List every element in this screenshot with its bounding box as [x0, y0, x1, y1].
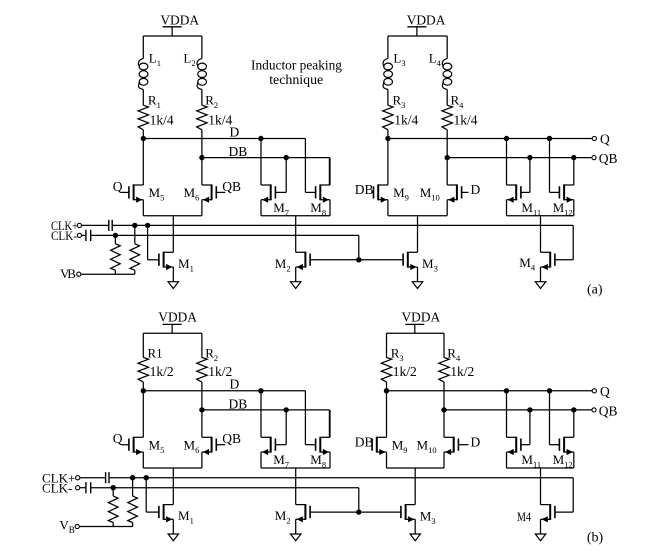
svg-text:Q: Q	[113, 179, 123, 194]
inductor L4	[429, 50, 452, 89]
svg-text:Inductor peaking: Inductor peaking	[251, 59, 342, 74]
junction dot D at M7 drain	[258, 388, 263, 393]
transistor M3 (circuit b)	[401, 504, 436, 526]
svg-text:DB: DB	[355, 434, 374, 449]
junction dot QB at M10 drain	[445, 155, 450, 160]
svg-text:DB: DB	[229, 144, 248, 159]
wire R2 bottom	[201, 130, 203, 158]
capacitor CLK- coupling (circuit a)	[86, 230, 91, 241]
bias terminal VB (circuit a)	[60, 266, 81, 281]
junction dot QB at M11 gate	[527, 155, 532, 160]
inductor L1	[138, 50, 161, 89]
wire drop to R2 (circuit b)	[201, 333, 203, 357]
junction dot D at M5 drain	[141, 388, 146, 393]
wire R2 bottom	[201, 382, 203, 410]
terminal QB	[592, 403, 618, 418]
wire M12 drain (circuit a)	[573, 158, 575, 185]
resistor R1	[138, 345, 163, 382]
wire VDDA rail (circuit a left)	[143, 35, 202, 37]
node DB label at M9 gate	[355, 182, 374, 197]
svg-text:1k/2: 1k/2	[150, 364, 174, 379]
terminal QB	[592, 151, 618, 166]
wire M11 drain (circuit b)	[506, 391, 508, 438]
node QB label at M6 gate	[216, 179, 241, 194]
transistor M6	[184, 184, 217, 202]
transistor M1 (circuit a)	[159, 252, 194, 274]
caption (b)	[587, 530, 604, 545]
wire M12 drain (circuit b)	[573, 410, 575, 437]
resistor R2	[197, 345, 218, 382]
junction dot CLK+ M1 gate	[145, 223, 150, 228]
terminal Q	[592, 384, 610, 399]
value label 1k/4 (R3)	[394, 113, 418, 128]
wire L1 to R1	[142, 90, 144, 106]
wire M7 gate riser	[275, 410, 286, 445]
ground M2	[291, 267, 301, 289]
junction dot DB at M7 gate	[284, 155, 289, 160]
input terminal CLK+ (circuit b)	[42, 470, 80, 485]
transistor M7	[261, 184, 289, 217]
input terminal CLK+ (circuit a)	[51, 218, 82, 233]
svg-text:QB: QB	[599, 151, 618, 166]
wire M9 drain (circuit a)	[387, 139, 389, 186]
svg-text:QB: QB	[599, 403, 618, 418]
svg-text:B: B	[67, 266, 76, 281]
svg-text:D: D	[230, 377, 240, 392]
svg-text:DB: DB	[229, 397, 248, 412]
svg-text:D: D	[471, 434, 481, 449]
transistor M9	[374, 184, 409, 202]
junction dot Q at M9 drain	[384, 388, 389, 393]
wire R4 bottom	[443, 382, 445, 410]
wire M8 drain (circuit a)	[329, 158, 331, 185]
junction dot CLK- bias resistor	[113, 233, 118, 238]
junction dot D at M7 drain	[258, 136, 263, 141]
ground M3	[410, 519, 420, 541]
transistor M4 (circuit a)	[519, 252, 555, 273]
wire CLK+ to coupling cap	[82, 224, 109, 226]
wire CLK- rail (circuit a)	[91, 235, 358, 259]
node D rail (circuit a)	[143, 124, 305, 192]
wire M11/M12 source bus	[507, 452, 574, 505]
node DB label at M9 gate	[355, 434, 374, 449]
svg-text:1k/2: 1k/2	[393, 364, 417, 379]
power VDDA (circuit a left half)	[160, 12, 199, 36]
transistor M5	[129, 437, 164, 455]
wire VB rail	[81, 273, 135, 275]
wire M2-M3 gate line (circuit a)	[310, 259, 403, 261]
node D label at M10 gate	[462, 182, 481, 197]
junction dot Q at M11 drain	[504, 136, 509, 141]
transistor M4 (circuit b)	[517, 504, 555, 524]
transistor M8	[310, 437, 330, 470]
junction dot Q at M9 drain	[385, 136, 390, 141]
wire M8 gate lead	[305, 191, 315, 193]
ground M2	[291, 519, 301, 541]
wire VDDA rail (circuit b right)	[387, 332, 445, 334]
node D rail (circuit b)	[143, 377, 305, 445]
transistor M8	[310, 184, 330, 217]
wire M7/M8 source bus	[261, 200, 330, 253]
transistor M2 (circuit a)	[275, 252, 310, 274]
value label 1k/2 (R4)	[450, 364, 474, 379]
value label 1k/4 (R1)	[150, 113, 174, 128]
node DB rail (circuit a)	[202, 144, 330, 185]
wire M1 gate riser	[148, 225, 159, 259]
resistor bias RB1 (circuit a)	[111, 235, 121, 274]
wire CLK- to coupling cap	[80, 487, 85, 489]
wire M2-M3 gate line (circuit b)	[310, 511, 401, 513]
resistor R4	[442, 92, 464, 129]
resistor bias RB1 (circuit b)	[108, 488, 118, 527]
inductor L2	[183, 50, 206, 89]
wire M12 gate riser	[550, 139, 560, 193]
wire M5 drain (circuit b)	[142, 391, 144, 438]
junction dot DB at M7 gate	[284, 407, 289, 412]
transistor M10	[420, 184, 462, 202]
junction dot CLK- to gate line	[356, 509, 361, 514]
terminal Q	[592, 132, 610, 147]
wire drop to R3 (circuit b)	[386, 333, 388, 357]
caption (a)	[587, 282, 603, 297]
wire R3 bottom	[387, 130, 389, 139]
wire VDDA rail (circuit b left)	[143, 332, 202, 334]
wire R1 bottom	[142, 130, 144, 139]
svg-text:1k/4: 1k/4	[394, 113, 418, 128]
wire drop to L4 (circuit a)	[446, 36, 448, 59]
resistor R4	[439, 345, 461, 382]
junction dot QB at M12 drain	[571, 155, 576, 160]
wire R3 bottom	[386, 382, 388, 391]
junction dot QB at M10 drain	[441, 407, 446, 412]
junction dot Q at M12 gate	[547, 388, 552, 393]
wire M7 drain (circuit a)	[260, 139, 262, 186]
wire M7/M8 source bus	[261, 452, 330, 505]
junction dot QB at M12 drain	[571, 407, 576, 412]
svg-text:(b): (b)	[587, 530, 604, 545]
transistor M2 (circuit b)	[275, 504, 310, 526]
svg-text:QB: QB	[222, 179, 241, 194]
node QB rail (circuit b)	[444, 409, 592, 411]
transistor M5	[129, 184, 164, 202]
junction dot CLK- bias resistor	[111, 485, 116, 490]
svg-text:Q: Q	[113, 431, 123, 446]
svg-text:QB: QB	[222, 431, 241, 446]
annotation text: Inductor peaking technique	[251, 59, 342, 88]
svg-text:VDDA: VDDA	[402, 309, 441, 324]
wire L4 to R4	[446, 90, 448, 106]
svg-text:1k/4: 1k/4	[454, 113, 478, 128]
junction dot CLK+ bias resistor	[132, 223, 137, 228]
wire M9 drain (circuit b)	[386, 391, 388, 438]
power VDDA (circuit b right half)	[402, 309, 441, 333]
value label 1k/4 (R4)	[454, 113, 478, 128]
capacitor CLK+ coupling (circuit b)	[106, 472, 109, 483]
wire drop to L3 (circuit a)	[387, 36, 389, 59]
capacitor CLK- coupling (circuit b)	[86, 482, 91, 493]
resistor R3	[383, 92, 406, 129]
wire M10 drain (circuit a)	[446, 158, 448, 185]
wire M8 gate lead	[305, 444, 315, 446]
wire M10 drain (circuit b)	[443, 410, 445, 437]
wire M6 drain (circuit a)	[201, 158, 203, 185]
transistor M3 (circuit a)	[403, 252, 438, 274]
wire CLK+ to coupling cap	[80, 477, 105, 479]
junction dot DB at M6 drain	[199, 407, 204, 412]
svg-text:1k/4: 1k/4	[150, 113, 174, 128]
svg-text:1k/2: 1k/2	[450, 364, 474, 379]
resistor R1	[138, 92, 161, 129]
transistor M6	[184, 437, 217, 455]
node DB rail (circuit b)	[202, 397, 330, 438]
value label 1k/4 (R2)	[208, 113, 232, 128]
wire L2 to R2	[201, 90, 203, 106]
junction dot CLK+ M1 gate	[144, 475, 149, 480]
svg-text:VDDA: VDDA	[160, 12, 199, 27]
wire M5/M6 source bus	[143, 452, 202, 505]
resistor R2	[197, 92, 218, 129]
transistor M12	[553, 184, 574, 217]
svg-text:D: D	[230, 124, 240, 139]
wire drop to L1 (circuit a)	[142, 36, 144, 59]
wire CLK- to coupling cap	[82, 234, 86, 236]
wire M9/M10 source bus	[388, 200, 447, 253]
value label 1k/2 (R1)	[150, 364, 174, 379]
transistor M12	[553, 437, 574, 470]
wire VDDA rail (circuit a right)	[388, 35, 447, 37]
value label 1k/2 (R2)	[208, 364, 232, 379]
ground M4	[535, 519, 546, 541]
junction dot CLK- to gate line	[356, 257, 361, 262]
svg-text:technique: technique	[269, 73, 323, 88]
wire CLK+ rail (circuit b)	[110, 478, 574, 512]
transistor M11	[507, 437, 542, 470]
resistor bias RB2 (circuit a)	[130, 225, 140, 274]
wire M11/M12 source bus	[507, 200, 574, 253]
wire M12 gate riser	[550, 391, 560, 445]
wire VB rail	[79, 526, 132, 528]
transistor M10	[417, 437, 459, 455]
input terminal CLK- (circuit a)	[51, 228, 82, 243]
junction dot Q at M12 gate	[547, 136, 552, 141]
wire M9/M10 source bus	[387, 452, 445, 505]
inductor L3	[383, 50, 406, 89]
node QB label at M6 gate	[216, 431, 241, 446]
power VDDA (circuit b left half)	[158, 309, 197, 333]
wire M4 gate lead	[555, 511, 573, 513]
svg-text:R1: R1	[148, 345, 163, 360]
wire drop to R4 (circuit b)	[443, 333, 445, 357]
wire M11 drain (circuit a)	[506, 139, 508, 186]
svg-text:VDDA: VDDA	[158, 309, 197, 324]
resistor R3	[381, 345, 403, 382]
node Q label at M5 gate	[113, 179, 129, 194]
power VDDA (circuit a right half)	[407, 12, 446, 36]
wire drop to L2 (circuit a)	[201, 36, 203, 59]
wire M8 drain (circuit b)	[329, 410, 331, 437]
wire M5 drain (circuit a)	[142, 139, 144, 186]
wire R1 bottom	[142, 382, 144, 391]
node Q rail (circuit b)	[387, 390, 593, 392]
wire M4 gate lead	[555, 259, 573, 261]
svg-text:(a): (a)	[587, 282, 603, 297]
resistor bias RB2 (circuit b)	[128, 478, 138, 527]
svg-text:M4: M4	[517, 509, 531, 524]
bias terminal VB (circuit b)	[59, 518, 79, 536]
svg-text:DB: DB	[355, 182, 374, 197]
ground M1	[168, 519, 178, 541]
wire M5/M6 source bus	[143, 200, 202, 253]
svg-text:Q: Q	[600, 132, 610, 147]
junction dot QB at M11 gate	[527, 407, 532, 412]
junction dot CLK+ bias resistor	[130, 475, 135, 480]
wire M11 gate riser	[521, 158, 530, 193]
wire L3 to R3	[387, 90, 389, 106]
ground M1	[168, 267, 178, 289]
node QB rail (circuit a)	[447, 157, 592, 159]
wire CLK- rail (circuit b)	[91, 488, 358, 512]
node Q label at M5 gate	[113, 431, 129, 446]
junction dot D at M5 drain	[141, 136, 146, 141]
node D label at M10 gate	[458, 434, 480, 449]
ground M3	[412, 267, 422, 289]
svg-text:VDDA: VDDA	[407, 12, 446, 27]
svg-text:Q: Q	[600, 384, 610, 399]
wire M7 drain (circuit b)	[260, 391, 262, 438]
transistor M7	[261, 437, 289, 470]
wire M1 gate riser	[146, 478, 159, 512]
input terminal CLK- (circuit b)	[42, 480, 80, 495]
svg-text:D: D	[471, 182, 481, 197]
svg-text:CLK-: CLK-	[51, 228, 77, 243]
wire drop to R1 (circuit b)	[142, 333, 144, 357]
transistor M1 (circuit b)	[159, 504, 194, 526]
ground M4	[535, 267, 546, 289]
transistor M11	[507, 184, 542, 217]
svg-text:CLK-: CLK-	[42, 480, 72, 495]
capacitor CLK+ coupling (circuit a)	[109, 220, 112, 231]
node Q rail (circuit a)	[388, 138, 592, 140]
wire M11 gate riser	[521, 410, 530, 445]
wire M6 drain (circuit b)	[201, 410, 203, 437]
value label 1k/2 (R3)	[393, 364, 417, 379]
junction dot DB at M6 drain	[199, 155, 204, 160]
junction dot Q at M11 drain	[504, 388, 509, 393]
transistor M9	[372, 437, 407, 455]
wire R4 bottom	[446, 130, 448, 158]
wire M7 gate riser	[275, 158, 286, 193]
wire CLK+ rail (circuit a)	[113, 225, 573, 259]
